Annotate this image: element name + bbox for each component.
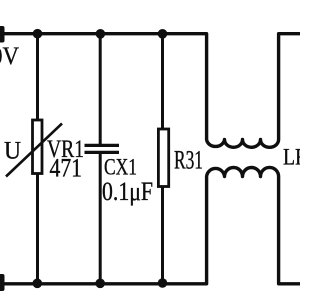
svg-text:LF: LF <box>283 145 300 170</box>
svg-text:R31: R31 <box>174 146 203 175</box>
svg-text:U: U <box>4 138 21 165</box>
svg-text:0.1μF: 0.1μF <box>102 177 153 206</box>
svg-text:471: 471 <box>50 154 83 183</box>
svg-text:CX1: CX1 <box>104 155 137 180</box>
svg-text:0V: 0V <box>0 43 19 70</box>
